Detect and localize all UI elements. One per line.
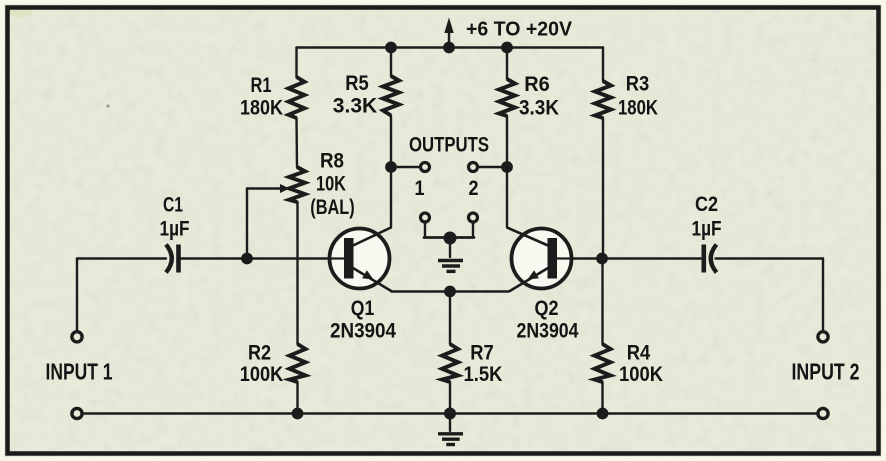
wire base node to R4 top — [601, 259, 603, 345]
wire emitter node to R7 — [449, 292, 451, 345]
node power rail R6 — [501, 42, 513, 54]
node output 1 — [385, 161, 397, 173]
wire R5 top — [390, 48, 392, 77]
wire C2 to input 2 corner — [716, 257, 824, 259]
svg-text:R5: R5 — [345, 71, 369, 95]
wire R2 bottom to rail — [296, 382, 298, 414]
svg-text:INPUT 2: INPUT 2 — [792, 358, 860, 384]
wire ground tie bar — [424, 236, 474, 239]
wire emitter bus — [392, 290, 509, 292]
resistor R1 — [289, 77, 305, 118]
wire R3 bottom to base node — [601, 118, 604, 259]
terminal rail left — [72, 408, 82, 418]
wire R6 bottom to output node — [506, 116, 508, 167]
transistor Q1 — [330, 228, 393, 292]
terminal output 1 lower — [421, 213, 430, 222]
svg-text:R1: R1 — [251, 73, 272, 97]
svg-text:OUTPUTS: OUTPUTS — [409, 133, 489, 157]
wire output 2 lower drop — [472, 223, 474, 238]
svg-text:2N3904: 2N3904 — [517, 319, 579, 343]
wire top power rail — [297, 46, 604, 48]
node C1 junction — [241, 253, 253, 265]
wire R8 wiper vertical — [246, 189, 248, 259]
svg-text:C2: C2 — [695, 192, 718, 216]
power arrow — [444, 18, 453, 48]
wire Q2 base to C2 — [556, 257, 701, 259]
svg-text:R3: R3 — [626, 72, 650, 96]
svg-text:R7: R7 — [470, 341, 494, 365]
wire output 1 lower drop — [424, 223, 426, 238]
wire R1 bottom to R8 top — [295, 118, 298, 167]
wire upper ground stem — [449, 238, 451, 258]
svg-text:R4: R4 — [627, 341, 651, 365]
svg-text:3.3K: 3.3K — [519, 96, 559, 120]
svg-text:2: 2 — [469, 176, 479, 200]
terminal input 2 — [818, 332, 828, 342]
svg-text:R2: R2 — [248, 341, 271, 365]
wire left column R1 top — [295, 48, 297, 78]
terminal output 1 upper — [421, 163, 430, 172]
wire input 1 horizontal — [77, 257, 166, 259]
svg-text:1µF: 1µF — [692, 217, 722, 241]
ground lower — [438, 434, 463, 445]
wire R8 wiper horizontal — [247, 187, 282, 189]
wire R6 top — [506, 48, 508, 80]
resistor R5 — [383, 76, 399, 116]
wire right column R3 top — [602, 48, 604, 82]
node R2 rail — [292, 408, 304, 420]
svg-text:3.3K: 3.3K — [333, 94, 378, 118]
terminal output 2 upper — [469, 163, 478, 172]
node emitter bus — [444, 286, 456, 298]
transistor Q2 — [507, 228, 572, 292]
terminal input 1 — [72, 332, 82, 342]
node R4 rail — [597, 408, 609, 420]
svg-text:INPUT 1: INPUT 1 — [46, 358, 113, 384]
resistor R6 — [499, 79, 515, 116]
svg-text:1µF: 1µF — [160, 217, 190, 241]
terminal rail right — [818, 408, 828, 418]
terminal output 2 lower — [469, 213, 478, 222]
svg-text:C1: C1 — [163, 193, 183, 217]
node output 2 — [501, 161, 513, 173]
svg-text:10K: 10K — [316, 172, 346, 196]
svg-text:180K: 180K — [240, 96, 283, 120]
node ground tie — [444, 232, 457, 245]
wire output node to Q1 collector — [390, 167, 392, 228]
wire input 1 vertical — [76, 259, 78, 331]
resistor R2 — [290, 344, 306, 382]
node power rail R5 — [385, 42, 397, 54]
svg-text:100K: 100K — [619, 362, 663, 386]
wire R4 bottom to rail — [601, 382, 603, 414]
svg-text:180K: 180K — [618, 96, 658, 120]
R8 wiper arrowhead — [280, 184, 290, 193]
wire output 2 stub — [479, 166, 508, 168]
wire R5 bottom to output node — [390, 116, 392, 167]
svg-text:+6 TO +20V: +6 TO +20V — [466, 19, 573, 41]
wire output node to Q2 collector — [506, 167, 508, 228]
wire R7 bottom to rail — [449, 382, 451, 414]
node R3 R4 base junction — [596, 253, 608, 265]
ground upper — [438, 261, 463, 272]
wire C1 to Q1 base — [179, 257, 346, 259]
svg-text:R6: R6 — [524, 72, 550, 96]
svg-text:2N3904: 2N3904 — [330, 319, 396, 343]
resistor R3 — [595, 81, 611, 118]
wire output 1 stub — [391, 166, 420, 168]
capacitor C1 — [166, 245, 179, 273]
wire input 2 vertical — [822, 259, 824, 331]
wire bottom rail — [84, 412, 817, 414]
wire R8 bottom crossing to R2 top — [296, 202, 298, 344]
svg-text:1: 1 — [415, 176, 425, 200]
node power rail arrow — [443, 42, 455, 54]
resistor R7 — [442, 344, 458, 382]
svg-text:100K: 100K — [240, 362, 284, 386]
potentiometer R8 — [289, 167, 305, 202]
svg-text:Q2: Q2 — [535, 296, 559, 320]
svg-text:Q1: Q1 — [351, 296, 375, 320]
svg-text:R8: R8 — [320, 149, 344, 173]
resistor R4 — [595, 344, 611, 382]
svg-text:(BAL): (BAL) — [310, 195, 355, 219]
svg-text:1.5K: 1.5K — [464, 362, 503, 386]
capacitor C2 — [704, 245, 717, 273]
node R7 rail — [444, 408, 456, 420]
wire lower ground stem — [449, 414, 451, 432]
